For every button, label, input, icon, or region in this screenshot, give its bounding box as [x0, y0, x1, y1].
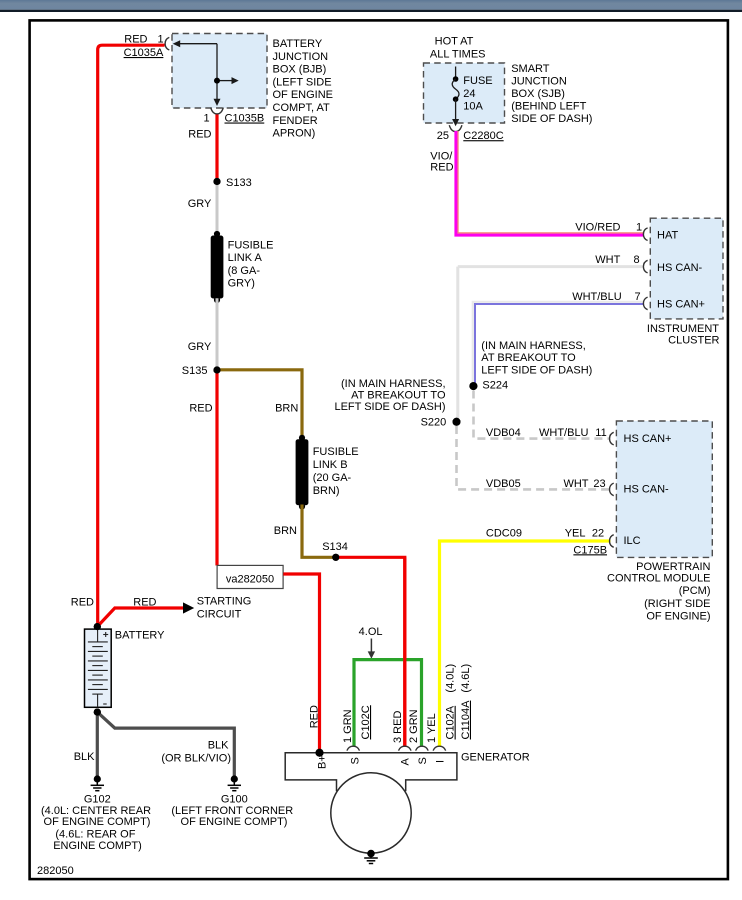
svg-text:(BEHIND LEFT: (BEHIND LEFT [511, 101, 586, 113]
wire RED starting circuit branch [97, 608, 183, 627]
svg-text:OF ENGINE): OF ENGINE) [646, 610, 710, 622]
svg-text:YEL: YEL [565, 527, 586, 539]
fuse 24 10A [452, 67, 493, 127]
connector arc PCM HS CAN+ pin11 [610, 432, 614, 445]
svg-text:RED: RED [133, 597, 156, 609]
svg-text:LEFT SIDE OF DASH): LEFT SIDE OF DASH) [481, 365, 592, 377]
svg-text:BLK: BLK [208, 740, 229, 752]
BJB internal wire [176, 44, 233, 100]
svg-text:25: 25 [437, 130, 449, 142]
svg-text:BOX (BJB): BOX (BJB) [273, 64, 327, 76]
svg-text:COMPT, AT: COMPT, AT [273, 102, 331, 114]
svg-text:RED: RED [309, 705, 321, 728]
svg-text:C102A: C102A [445, 705, 457, 739]
wire WHT vertical to S220 [456, 267, 459, 422]
svg-text:C102C: C102C [360, 705, 372, 739]
svg-text:VIO/RED: VIO/RED [575, 221, 620, 233]
svg-text:S135: S135 [182, 365, 208, 377]
label pin1 C1035B [188, 113, 264, 141]
ground G102 [41, 775, 151, 851]
svg-text:S134: S134 [322, 541, 348, 553]
BJB junction dot [214, 78, 220, 84]
svg-text:RED: RED [188, 129, 211, 141]
svg-text:GRY): GRY) [228, 278, 255, 290]
svg-text:24: 24 [463, 88, 475, 100]
svg-text:WHT: WHT [595, 254, 620, 266]
connector arc HS CAN- pin8 [643, 260, 647, 273]
wire VIO/RED vertical + horizontal to cluster [456, 131, 644, 235]
svg-text:(4.6L: REAR OF: (4.6L: REAR OF [55, 828, 135, 840]
svg-text:STARTING: STARTING [197, 596, 252, 608]
svg-text:BRN: BRN [275, 403, 298, 415]
svg-text:LINK B: LINK B [313, 459, 348, 471]
svg-text:C2280C: C2280C [463, 130, 503, 142]
starting circuit arrowhead [183, 602, 194, 613]
wire BRN link B to S134 [302, 505, 336, 558]
pin arc A [399, 746, 412, 750]
wire RED S134 to generator A pin [336, 557, 405, 746]
wire YEL from generator I pin to PCM ILC [440, 541, 611, 747]
instrument cluster box [650, 218, 723, 319]
wire dashed VDB05 from S220 to PCM HS CAN- [457, 426, 611, 489]
svg-text:GENERATOR: GENERATOR [461, 752, 530, 764]
svg-text:S224: S224 [482, 380, 508, 392]
svg-text:SIDE OF DASH): SIDE OF DASH) [511, 113, 592, 125]
svg-text:BATTERY: BATTERY [273, 38, 323, 50]
svg-text:JUNCTION: JUNCTION [273, 51, 329, 63]
svg-text:GRY: GRY [188, 341, 212, 353]
svg-text:1: 1 [203, 113, 209, 125]
svg-text:RED: RED [189, 403, 212, 415]
junction dots overlay [94, 178, 478, 757]
box va282050 [217, 565, 283, 588]
svg-text:I: I [435, 760, 447, 763]
svg-text:22: 22 [592, 527, 604, 539]
battery [85, 629, 166, 707]
svg-text:23: 23 [593, 478, 605, 490]
wire red top-left horizontal [98, 45, 165, 626]
svg-text:8: 8 [633, 254, 639, 266]
svg-text:2 GRN: 2 GRN [408, 709, 420, 743]
node S135 [213, 366, 220, 373]
svg-text:(LEFT FRONT CORNER: (LEFT FRONT CORNER [171, 805, 293, 817]
svg-text:HS CAN-: HS CAN- [624, 484, 670, 496]
svg-text:CONTROL MODULE: CONTROL MODULE [607, 573, 711, 585]
node S220 [453, 418, 461, 426]
connector arc HS CAN+ pin7 [643, 297, 647, 310]
node S224 [470, 382, 478, 390]
svg-text:OF ENGINE COMPT): OF ENGINE COMPT) [181, 816, 288, 828]
svg-text:4.OL: 4.OL [359, 626, 383, 638]
svg-text:WHT/BLU: WHT/BLU [572, 291, 622, 303]
svg-text:HS CAN+: HS CAN+ [624, 433, 672, 445]
svg-text:OF ENGINE COMPT): OF ENGINE COMPT) [44, 816, 151, 828]
battery bottom junction [94, 709, 101, 716]
svg-text:(PCM): (PCM) [679, 585, 711, 597]
svg-text:AT BREAKOUT TO: AT BREAKOUT TO [481, 352, 576, 364]
wire RED va282050 to generator B+ [283, 574, 319, 753]
svg-text:AT BREAKOUT TO: AT BREAKOUT TO [351, 390, 446, 402]
svg-text:HS CAN-: HS CAN- [657, 262, 703, 274]
svg-text:(4.0L: CENTER REAR: (4.0L: CENTER REAR [41, 805, 151, 817]
BJB arrowheads [173, 40, 239, 106]
svg-text:va282050: va282050 [226, 573, 274, 585]
svg-text:LINK A: LINK A [228, 252, 263, 264]
svg-text:JUNCTION: JUNCTION [511, 76, 567, 88]
svg-text:ENGINE COMPT): ENGINE COMPT) [53, 840, 142, 852]
svg-text:POWERTRAIN: POWERTRAIN [636, 561, 710, 573]
svg-text:1: 1 [636, 221, 642, 233]
battery top junction [94, 623, 101, 630]
svg-text:(4.6L): (4.6L) [460, 664, 472, 693]
connector arc PCM HS CAN- pin23 [610, 483, 614, 496]
connector arc C1035A [165, 37, 169, 50]
svg-text:G100: G100 [221, 793, 248, 805]
generator ground [364, 850, 378, 864]
svg-text:C1035A: C1035A [124, 47, 164, 59]
battery junction box BJB [172, 34, 267, 109]
connector arc C2280C pin25 [449, 125, 462, 131]
wire WHT horizontal [458, 265, 644, 268]
svg-text:3 RED: 3 RED [392, 711, 404, 743]
svg-text:ILC: ILC [624, 535, 641, 547]
svg-text:(4.0L): (4.0L) [445, 664, 457, 693]
svg-text:RED: RED [430, 162, 453, 174]
svg-text:S220: S220 [421, 417, 447, 429]
svg-text:LEFT SIDE OF DASH): LEFT SIDE OF DASH) [334, 401, 445, 413]
rotated wire labels above generator [309, 664, 472, 743]
svg-text:282050: 282050 [37, 865, 74, 877]
svg-text:APRON): APRON) [273, 128, 316, 140]
generator pin names [317, 755, 447, 769]
svg-text:BRN: BRN [274, 525, 297, 537]
svg-text:GRY: GRY [188, 198, 212, 210]
svg-text:WHT/BLU: WHT/BLU [539, 427, 589, 439]
svg-text:VDB04: VDB04 [486, 427, 521, 439]
SJB name text [511, 63, 592, 125]
wire dashed VDB04 from S224 to PCM HS CAN+ [474, 391, 611, 439]
svg-text:G102: G102 [84, 793, 111, 805]
wire BRN from S135 to link B [217, 370, 302, 440]
PCM box [616, 421, 712, 557]
svg-text:CLUSTER: CLUSTER [668, 335, 719, 347]
svg-text:OF ENGINE: OF ENGINE [273, 89, 334, 101]
svg-text:CDC09: CDC09 [486, 527, 522, 539]
svg-text:S133: S133 [226, 177, 252, 189]
svg-text:FUSIBLE: FUSIBLE [228, 239, 274, 251]
svg-text:BATTERY: BATTERY [115, 629, 165, 641]
svg-text:VDB05: VDB05 [486, 478, 521, 490]
svg-text:(IN MAIN HARNESS,: (IN MAIN HARNESS, [341, 378, 446, 390]
svg-text:HAT: HAT [657, 230, 678, 242]
svg-text:(IN MAIN HARNESS,: (IN MAIN HARNESS, [481, 340, 586, 352]
svg-text:RED: RED [71, 597, 94, 609]
svg-text:FUSE: FUSE [463, 75, 492, 87]
wire GRN bridge S to S [354, 660, 422, 747]
svg-text:C1035B: C1035B [225, 113, 265, 125]
wire WHT/BLU horizontal [473, 302, 644, 386]
pin arc S2 [416, 746, 429, 750]
svg-text:WHT: WHT [563, 478, 588, 490]
svg-text:11: 11 [595, 427, 606, 439]
svg-text:1 YEL: 1 YEL [426, 713, 438, 743]
PCM name [607, 561, 711, 622]
node S133 [213, 178, 220, 185]
BJB name text [273, 38, 334, 140]
pin arc I [433, 746, 446, 750]
svg-text:BLK: BLK [74, 751, 95, 763]
wire GRY lower [216, 298, 219, 370]
svg-text:SMART: SMART [511, 63, 550, 75]
svg-text:(RIGHT SIDE: (RIGHT SIDE [644, 598, 710, 610]
svg-text:B+: B+ [317, 755, 329, 769]
connector arc HAT pin1 [643, 228, 647, 241]
svg-text:C175B: C175B [573, 544, 607, 556]
svg-text:INSTRUMENT: INSTRUMENT [647, 323, 719, 335]
svg-text:HS CAN+: HS CAN+ [657, 299, 705, 311]
svg-text:1 GRN: 1 GRN [342, 709, 354, 743]
svg-text:S: S [417, 757, 429, 764]
ground G100 [171, 775, 293, 828]
svg-text:A: A [400, 758, 412, 766]
svg-text:BRN): BRN) [313, 485, 340, 497]
svg-text:CIRCUIT: CIRCUIT [197, 608, 242, 620]
svg-text:BOX (SJB): BOX (SJB) [511, 88, 565, 100]
svg-text:(20 GA-: (20 GA- [313, 472, 352, 484]
fusible link B [296, 435, 359, 510]
wire red C1035B to S133 [215, 115, 218, 182]
svg-text:C1104A: C1104A [460, 700, 472, 740]
wire RED S135 down to va282050 [215, 370, 218, 566]
svg-text:ALL TIMES: ALL TIMES [430, 49, 486, 61]
wire RED over bridge (redraw to keep red on top) [403, 557, 406, 746]
svg-text:(OR BLK/VIO): (OR BLK/VIO) [161, 752, 231, 764]
connector arc PCM ILC pin22 [610, 535, 614, 548]
svg-text:S: S [350, 757, 362, 764]
label RED pin1 C1035A [124, 34, 164, 60]
connector arc C1035B [211, 108, 224, 114]
pin arc S C102C [347, 746, 360, 750]
node S134 [332, 554, 339, 561]
svg-text:(8 GA-: (8 GA- [228, 265, 261, 277]
svg-text:(LEFT SIDE: (LEFT SIDE [273, 76, 332, 88]
svg-text:10A: 10A [463, 101, 483, 113]
fusible link A [211, 231, 274, 303]
svg-text:7: 7 [634, 291, 640, 303]
wire GRY upper [216, 182, 219, 236]
svg-text:FENDER: FENDER [273, 115, 318, 127]
generator body [285, 753, 457, 792]
svg-text:HOT AT: HOT AT [435, 36, 474, 48]
svg-text:FUSIBLE: FUSIBLE [313, 446, 359, 458]
wire BLK battery to G102 [96, 709, 99, 780]
node B+ junction [316, 749, 324, 757]
wire BLK branch to G100 [97, 712, 234, 779]
